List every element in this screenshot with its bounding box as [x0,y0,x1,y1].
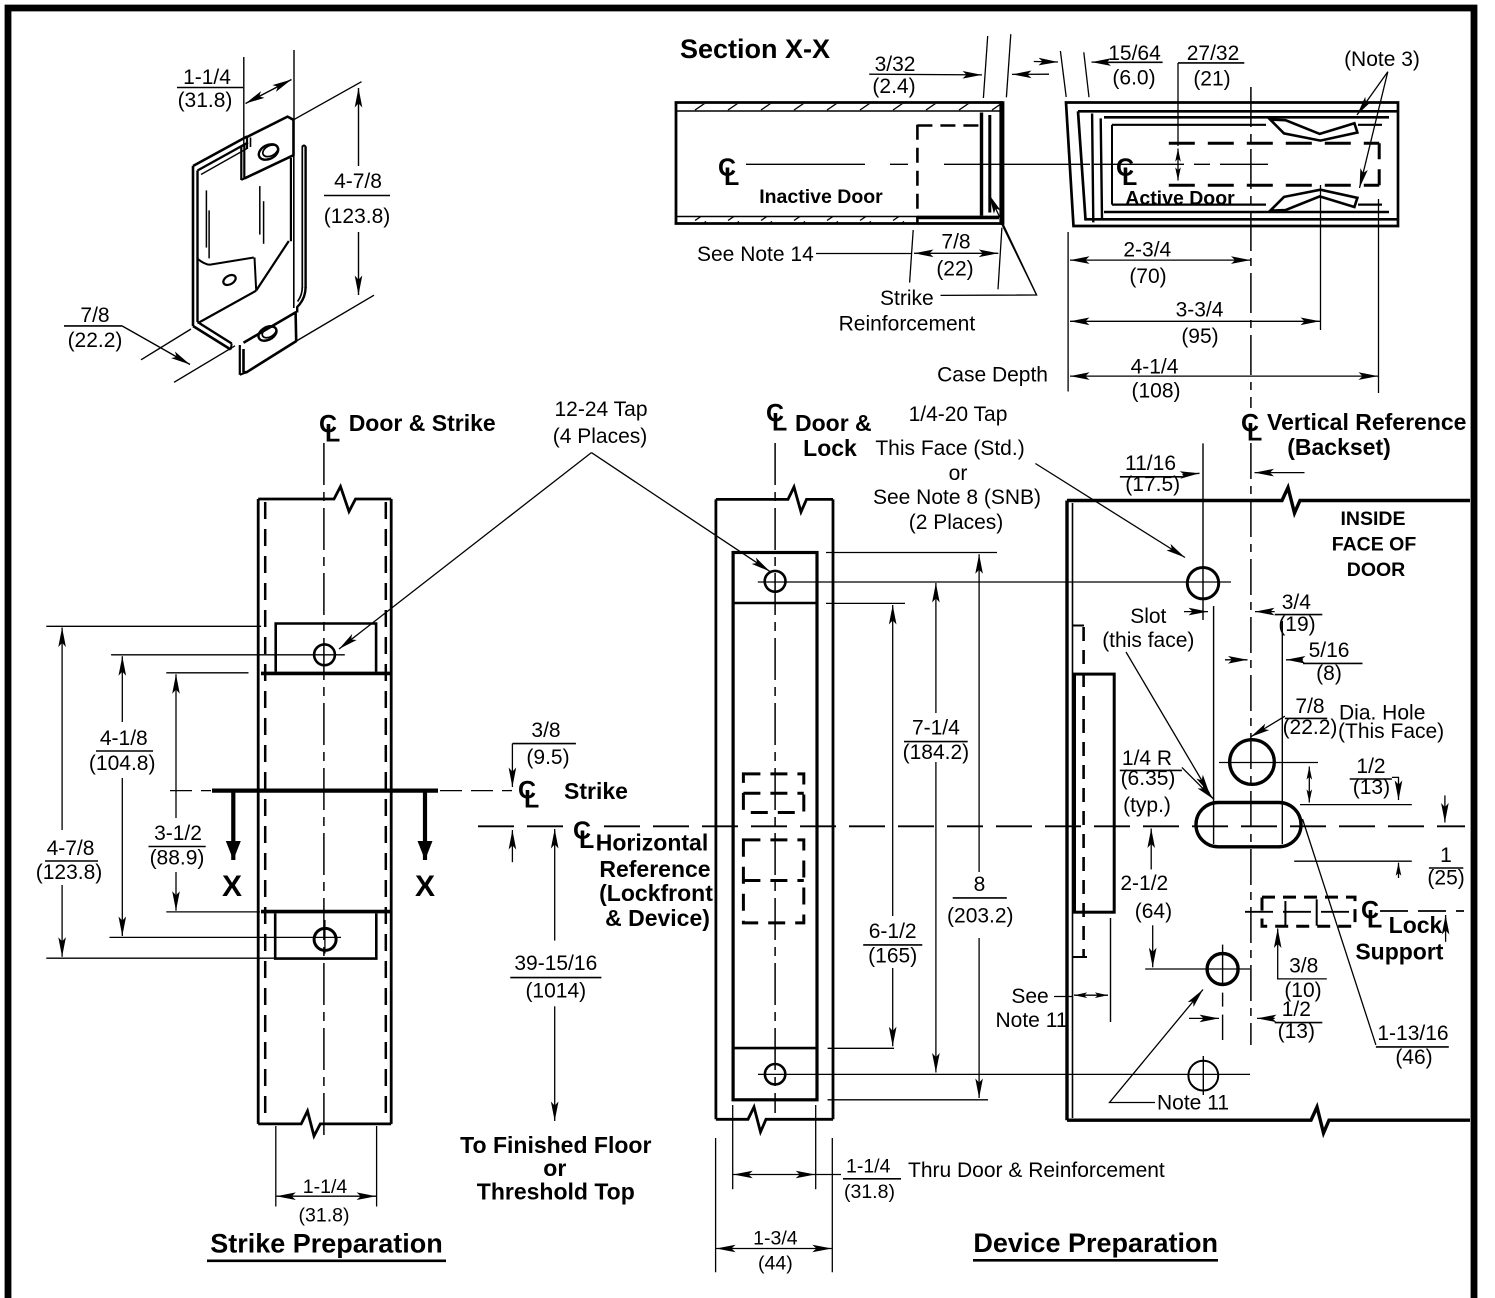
svg-text:(203.2): (203.2) [947,905,1014,928]
svg-text:(Note 3): (Note 3) [1344,48,1420,71]
svg-text:1/4-20 Tap: 1/4-20 Tap [909,403,1008,426]
svg-text:Active Door: Active Door [1125,188,1235,210]
svg-text:Door & Strike: Door & Strike [349,410,496,436]
svg-text:(46): (46) [1395,1046,1432,1069]
svg-text:(95): (95) [1181,325,1218,348]
svg-text:(123.8): (123.8) [36,861,103,884]
svg-text:(2.4): (2.4) [872,75,915,98]
svg-text:Strike Preparation: Strike Preparation [210,1229,443,1259]
svg-text:(13): (13) [1278,1020,1315,1043]
svg-text:7/8: 7/8 [941,231,970,254]
svg-text:(31.8): (31.8) [299,1205,350,1227]
svg-text:1-13/16: 1-13/16 [1377,1022,1448,1045]
svg-text:(this face): (this face) [1102,629,1194,652]
svg-text:Note 11: Note 11 [1157,1092,1229,1115]
svg-text:1-1/4: 1-1/4 [846,1156,891,1178]
svg-text:6-1/2: 6-1/2 [869,920,917,943]
svg-text:4-7/8: 4-7/8 [47,837,95,860]
svg-text:Device Preparation: Device Preparation [973,1228,1218,1258]
svg-text:(64): (64) [1135,900,1172,923]
svg-text:(This Face): (This Face) [1338,720,1444,743]
svg-text:Inactive Door: Inactive Door [759,186,883,208]
svg-text:Threshold Top: Threshold Top [477,1179,635,1205]
svg-text:or: or [543,1155,566,1181]
svg-text:Thru Door & Reinforcement: Thru Door & Reinforcement [908,1159,1165,1182]
svg-text:1/2: 1/2 [1282,998,1311,1021]
svg-text:3/8: 3/8 [531,719,560,742]
svg-text:(19): (19) [1278,613,1315,636]
svg-text:Reinforcement: Reinforcement [839,313,976,336]
svg-text:Section X-X: Section X-X [680,34,830,64]
svg-text:12-24 Tap: 12-24 Tap [554,398,647,421]
svg-text:Case Depth: Case Depth [937,364,1048,387]
svg-text:(Lockfront: (Lockfront [599,880,713,906]
svg-text:1-1/4: 1-1/4 [183,66,231,89]
svg-text:Lock: Lock [803,435,857,461]
svg-text:3/4: 3/4 [1282,591,1312,614]
svg-text:5/16: 5/16 [1309,639,1350,662]
svg-text:3-3/4: 3-3/4 [1176,299,1224,322]
svg-text:(25): (25) [1427,867,1464,890]
svg-text:& Device): & Device) [605,905,710,931]
svg-text:4-1/4: 4-1/4 [1131,356,1179,379]
svg-text:11/16: 11/16 [1125,452,1176,475]
svg-text:(21): (21) [1193,68,1230,91]
svg-text:(88.9): (88.9) [150,847,205,870]
svg-text:See Note 8 (SNB): See Note 8 (SNB) [873,486,1041,509]
svg-text:(9.5): (9.5) [526,746,569,769]
svg-text:(6.0): (6.0) [1112,67,1155,90]
svg-text:3/32: 3/32 [875,53,916,76]
svg-text:X: X [222,870,242,903]
svg-text:4-7/8: 4-7/8 [334,170,382,193]
svg-text:Reference: Reference [599,856,710,882]
svg-text:39-15/16: 39-15/16 [514,952,597,975]
svg-text:FACE OF: FACE OF [1332,534,1417,556]
svg-text:8: 8 [974,873,986,896]
svg-text:(1014): (1014) [525,980,586,1003]
svg-text:(123.8): (123.8) [324,205,391,228]
svg-text:1-3/4: 1-3/4 [753,1228,798,1250]
svg-text:1-1/4: 1-1/4 [303,1176,348,1198]
svg-text:Note 11: Note 11 [996,1009,1068,1032]
svg-text:Strike: Strike [880,287,934,310]
svg-text:(2 Places): (2 Places) [909,511,1004,534]
svg-text:1: 1 [1440,844,1452,867]
svg-text:(Backset): (Backset) [1287,434,1391,460]
svg-text:Lock: Lock [1389,912,1443,938]
svg-text:Horizontal: Horizontal [596,830,708,856]
svg-text:(8): (8) [1316,662,1342,685]
svg-text:7/8: 7/8 [80,304,109,327]
svg-text:(22): (22) [936,258,973,281]
svg-text:2-1/2: 2-1/2 [1120,872,1168,895]
svg-text:(typ.): (typ.) [1123,794,1171,817]
svg-text:7-1/4: 7-1/4 [912,717,960,740]
svg-text:(22.2): (22.2) [68,329,123,352]
svg-text:Door &: Door & [795,410,872,436]
svg-text:or: or [949,462,968,485]
svg-text:(31.8): (31.8) [844,1181,895,1203]
svg-text:(22.2): (22.2) [1283,716,1338,739]
svg-text:Support: Support [1355,939,1443,965]
svg-text:Slot: Slot [1130,605,1166,628]
svg-text:(44): (44) [758,1253,793,1275]
svg-text:27/32: 27/32 [1187,42,1240,65]
svg-text:3/8: 3/8 [1289,955,1318,978]
svg-text:(31.8): (31.8) [178,89,233,112]
svg-text:See: See [1011,985,1048,1008]
svg-text:2-3/4: 2-3/4 [1123,239,1171,262]
svg-text:Strike: Strike [564,778,628,804]
svg-text:3-1/2: 3-1/2 [154,822,202,845]
svg-text:4-1/8: 4-1/8 [100,727,148,750]
svg-text:(108): (108) [1131,380,1180,403]
svg-text:(70): (70) [1129,265,1166,288]
svg-text:(6.35): (6.35) [1121,767,1176,790]
svg-text:Vertical Reference: Vertical Reference [1267,409,1466,435]
svg-text:This Face (Std.): This Face (Std.) [875,437,1024,460]
svg-text:(4 Places): (4 Places) [553,425,648,448]
svg-text:(184.2): (184.2) [903,741,970,764]
svg-text:1/2: 1/2 [1356,755,1385,778]
svg-text:See Note 14: See Note 14 [697,243,814,266]
svg-text:(17.5): (17.5) [1125,473,1180,496]
svg-text:X: X [415,870,435,903]
svg-text:7/8: 7/8 [1295,695,1324,718]
svg-text:DOOR: DOOR [1347,559,1406,581]
svg-text:INSIDE: INSIDE [1340,508,1405,530]
svg-text:(13): (13) [1353,776,1390,799]
svg-text:(165): (165) [868,945,917,968]
svg-text:(104.8): (104.8) [89,752,156,775]
